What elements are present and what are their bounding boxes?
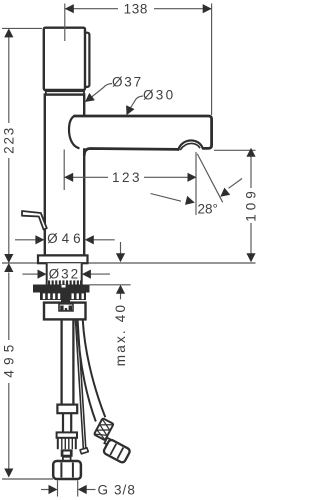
svg-text:max. 40: max. 40: [113, 303, 128, 366]
svg-text:223: 223: [1, 126, 16, 154]
svg-text:Ø30: Ø30: [143, 87, 175, 102]
svg-text:28°: 28°: [198, 202, 218, 217]
svg-text:495: 495: [1, 340, 16, 378]
svg-text:138: 138: [124, 1, 148, 16]
svg-text:109: 109: [244, 187, 259, 222]
svg-text:Ø37: Ø37: [112, 74, 143, 89]
svg-text:Ø32: Ø32: [49, 266, 81, 281]
svg-text:G 3/8: G 3/8: [98, 482, 137, 497]
svg-text:Ø46: Ø46: [47, 231, 85, 246]
svg-text:123: 123: [112, 170, 142, 185]
